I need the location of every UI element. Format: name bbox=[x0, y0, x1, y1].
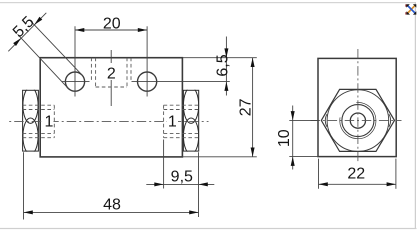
svg-text:48: 48 bbox=[103, 197, 121, 214]
svg-text:10: 10 bbox=[276, 129, 293, 147]
svg-text:22: 22 bbox=[347, 166, 365, 183]
svg-text:9,5: 9,5 bbox=[171, 168, 193, 185]
svg-text:1: 1 bbox=[44, 114, 53, 131]
svg-text:1: 1 bbox=[168, 114, 177, 131]
svg-text:20: 20 bbox=[103, 15, 121, 32]
svg-text:27: 27 bbox=[238, 98, 255, 116]
svg-text:2: 2 bbox=[107, 65, 116, 82]
svg-text:6,5: 6,5 bbox=[214, 54, 231, 76]
